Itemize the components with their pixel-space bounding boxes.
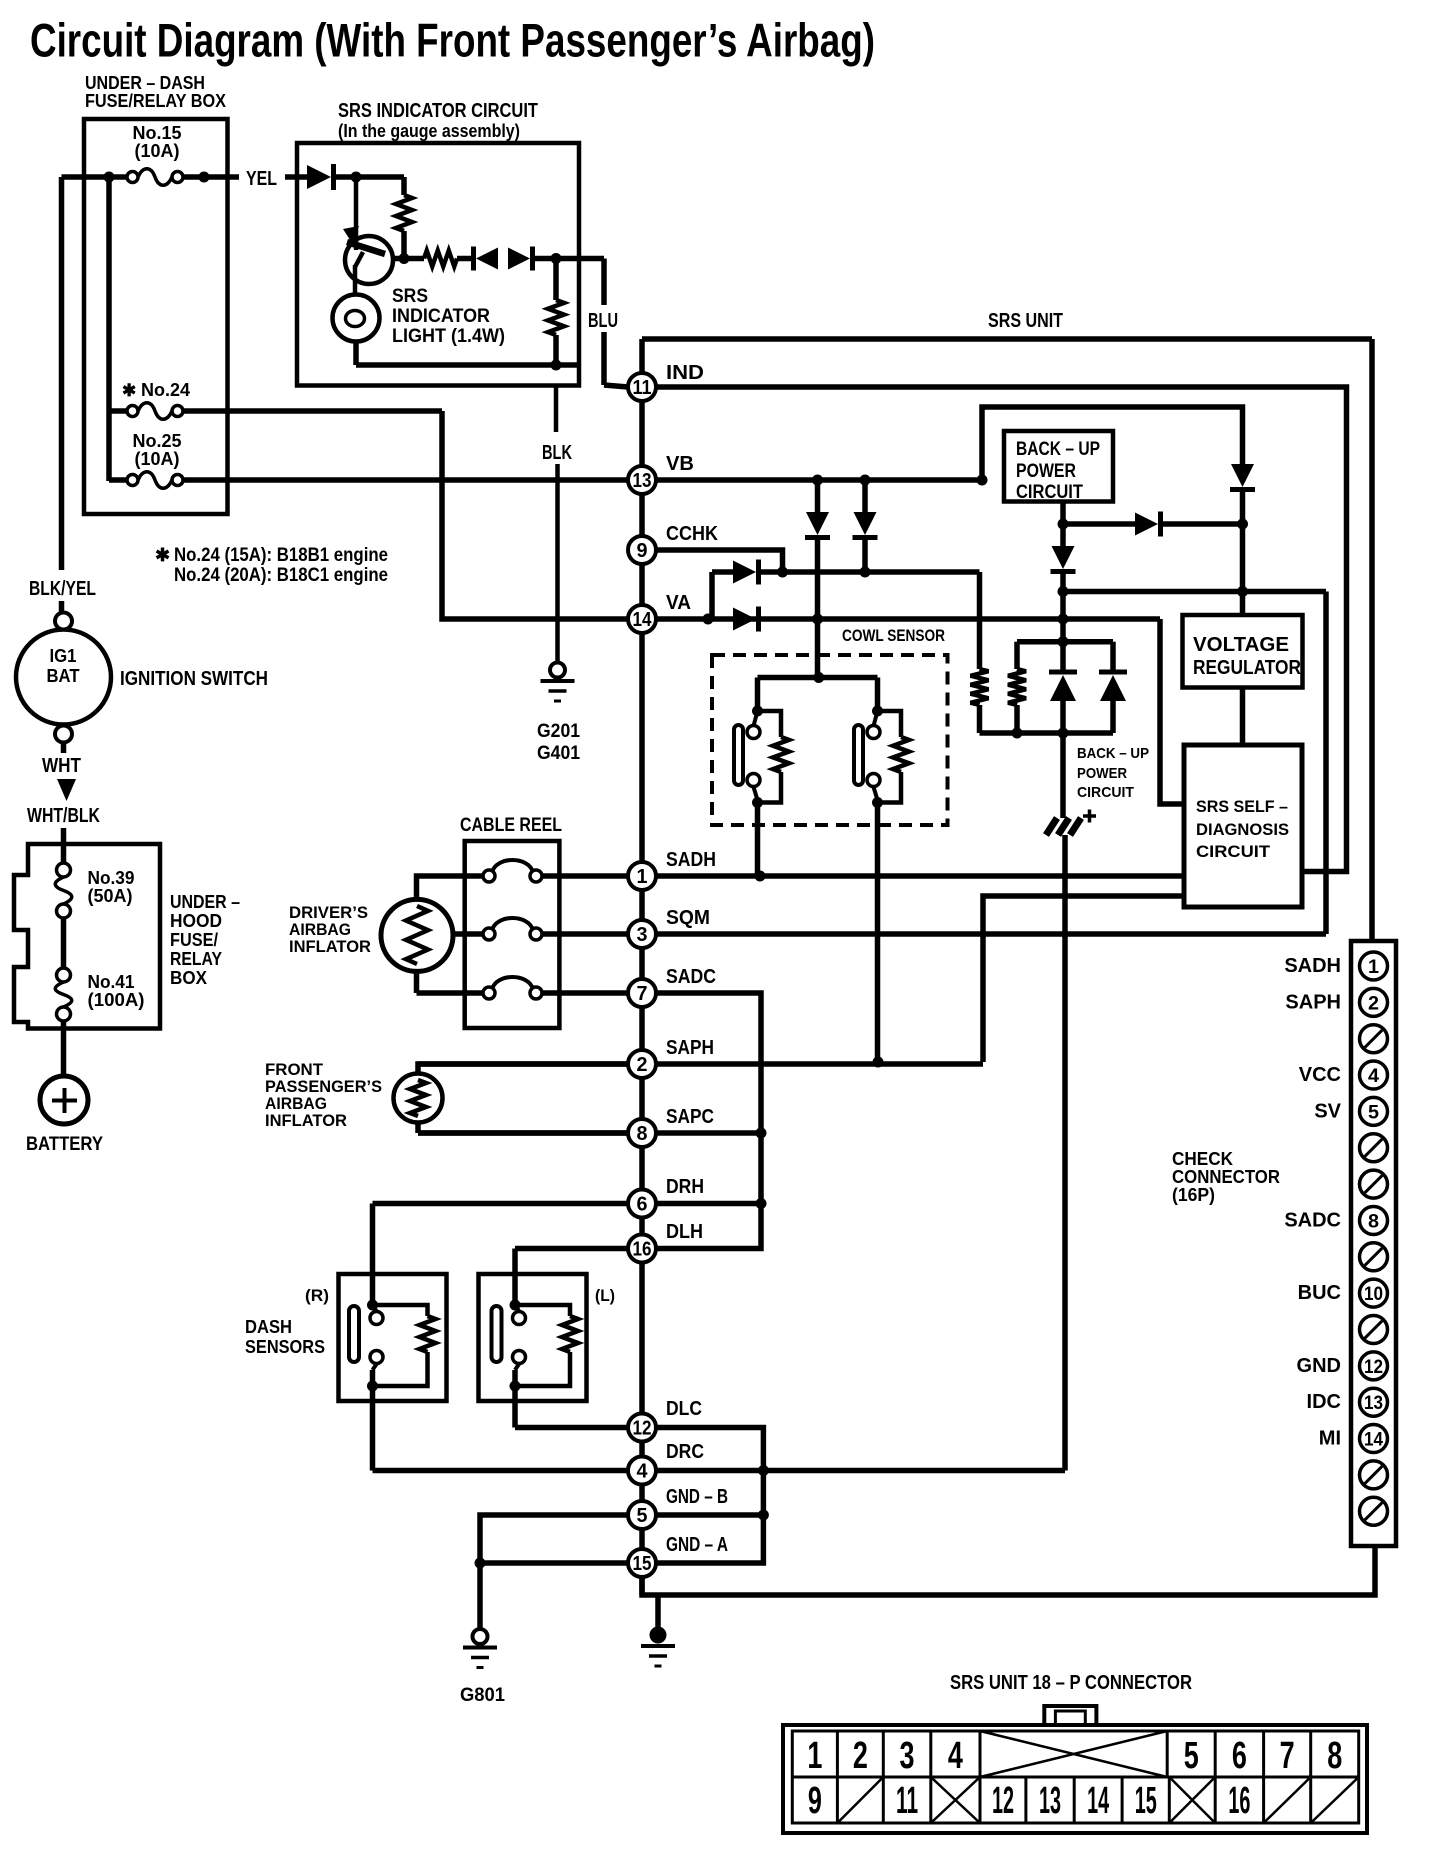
svg-text:13: 13 — [1364, 1393, 1383, 1414]
svg-text:No.24: No.24 — [141, 380, 190, 400]
svg-text:SV: SV — [1314, 1100, 1341, 1122]
svg-text:CIRCUIT: CIRCUIT — [1016, 482, 1083, 503]
svg-text:(50A): (50A) — [88, 886, 133, 906]
svg-text:8: 8 — [1368, 1211, 1379, 1232]
svg-text:CIRCUIT: CIRCUIT — [1196, 842, 1271, 861]
svg-text:3: 3 — [900, 1735, 915, 1777]
svg-text:5: 5 — [637, 1505, 648, 1527]
svg-text:UNDER – DASH: UNDER – DASH — [85, 73, 205, 93]
svg-text:WHT: WHT — [42, 755, 81, 777]
svg-text:7: 7 — [1280, 1735, 1295, 1777]
svg-text:8: 8 — [1327, 1735, 1342, 1777]
svg-text:(10A): (10A) — [135, 141, 180, 161]
svg-text:HOOD: HOOD — [170, 911, 222, 931]
svg-text:SADC: SADC — [666, 966, 716, 988]
svg-text:12: 12 — [992, 1780, 1014, 1822]
svg-text:4: 4 — [1368, 1066, 1379, 1087]
svg-text:BAT: BAT — [47, 666, 80, 686]
svg-text:CCHK: CCHK — [666, 523, 718, 545]
svg-text:IG1: IG1 — [50, 646, 77, 666]
svg-text:8: 8 — [637, 1123, 648, 1145]
svg-text:DIAGNOSIS: DIAGNOSIS — [1196, 820, 1289, 839]
svg-text:BLK: BLK — [542, 442, 572, 464]
svg-text:COWL SENSOR: COWL SENSOR — [842, 626, 945, 645]
svg-text:(L): (L) — [595, 1286, 615, 1305]
svg-text:14: 14 — [633, 609, 653, 631]
svg-text:3: 3 — [637, 924, 648, 946]
svg-text:13: 13 — [1039, 1780, 1061, 1822]
svg-text:MI: MI — [1319, 1428, 1341, 1450]
svg-text:BOX: BOX — [170, 968, 207, 988]
svg-text:GND – B: GND – B — [666, 1486, 728, 1508]
svg-text:DASH: DASH — [245, 1317, 292, 1337]
svg-text:No.25: No.25 — [133, 431, 182, 451]
svg-text:(R): (R) — [305, 1286, 329, 1305]
svg-text:SAPH: SAPH — [1285, 991, 1341, 1013]
svg-text:5: 5 — [1184, 1735, 1199, 1777]
svg-text:4: 4 — [637, 1461, 649, 1483]
svg-text:No.24 (20A): B18C1 engine: No.24 (20A): B18C1 engine — [174, 565, 388, 586]
svg-text:No.24 (15A): B18B1 engine: No.24 (15A): B18B1 engine — [174, 545, 388, 566]
svg-text:BLK/YEL: BLK/YEL — [29, 578, 96, 600]
svg-text:POWER: POWER — [1016, 461, 1076, 482]
svg-text:SADC: SADC — [1284, 1209, 1341, 1231]
svg-text:CIRCUIT: CIRCUIT — [1077, 784, 1134, 801]
svg-text:No.41: No.41 — [88, 972, 135, 992]
svg-text:INDICATOR: INDICATOR — [392, 306, 490, 327]
svg-text:GND – A: GND – A — [666, 1534, 728, 1556]
svg-text:9: 9 — [637, 540, 648, 562]
svg-text:G401: G401 — [537, 743, 580, 764]
svg-text:SRS UNIT: SRS UNIT — [988, 310, 1063, 332]
svg-text:DLH: DLH — [666, 1221, 703, 1243]
svg-text:VOLTAGE: VOLTAGE — [1193, 634, 1289, 656]
svg-text:IDC: IDC — [1307, 1391, 1341, 1413]
svg-text:SRS: SRS — [392, 286, 428, 307]
svg-text:12: 12 — [1364, 1357, 1383, 1378]
svg-text:BACK – UP: BACK – UP — [1077, 745, 1149, 762]
svg-text:CONNECTOR: CONNECTOR — [1172, 1167, 1280, 1187]
svg-text:SRS INDICATOR CIRCUIT: SRS INDICATOR CIRCUIT — [338, 100, 538, 122]
svg-text:14: 14 — [1087, 1780, 1109, 1822]
svg-text:10: 10 — [1364, 1284, 1383, 1305]
svg-text:DRC: DRC — [666, 1441, 704, 1463]
svg-text:9: 9 — [808, 1780, 822, 1822]
svg-text:RELAY: RELAY — [170, 949, 222, 969]
svg-text:6: 6 — [637, 1194, 648, 1216]
svg-text:FUSE/RELAY BOX: FUSE/RELAY BOX — [85, 91, 226, 111]
svg-text:13: 13 — [633, 470, 652, 492]
svg-text:BLU: BLU — [588, 310, 618, 332]
svg-text:1: 1 — [807, 1735, 822, 1777]
svg-text:LIGHT (1.4W): LIGHT (1.4W) — [392, 326, 505, 347]
svg-text:2: 2 — [1368, 993, 1379, 1014]
svg-text:VCC: VCC — [1299, 1064, 1341, 1086]
svg-text:DRH: DRH — [666, 1176, 704, 1198]
svg-text:VB: VB — [666, 453, 694, 475]
svg-text:15: 15 — [633, 1553, 652, 1575]
svg-text:G201: G201 — [537, 721, 580, 742]
svg-text:SQM: SQM — [666, 907, 710, 929]
svg-text:BACK – UP: BACK – UP — [1016, 439, 1100, 460]
svg-text:2: 2 — [637, 1054, 648, 1076]
svg-text:(16P): (16P) — [1172, 1185, 1215, 1205]
svg-text:16: 16 — [1228, 1780, 1250, 1822]
svg-text:DLC: DLC — [666, 1398, 702, 1420]
svg-text:FUSE/: FUSE/ — [170, 930, 218, 950]
svg-text:INFLATOR: INFLATOR — [265, 1111, 347, 1130]
svg-text:G801: G801 — [460, 1685, 505, 1706]
svg-text:SAPH: SAPH — [666, 1037, 714, 1059]
svg-text:No.15: No.15 — [133, 123, 182, 143]
svg-text:SRS SELF –: SRS SELF – — [1196, 797, 1288, 816]
svg-text:VA: VA — [666, 592, 691, 614]
svg-text:1: 1 — [1368, 957, 1379, 978]
svg-text:UNDER –: UNDER – — [170, 892, 240, 912]
svg-text:(10A): (10A) — [135, 449, 180, 469]
svg-text:12: 12 — [633, 1418, 652, 1440]
svg-text:5: 5 — [1368, 1102, 1379, 1123]
svg-text:15: 15 — [1135, 1780, 1157, 1822]
svg-text:(In the gauge assembly): (In the gauge assembly) — [338, 121, 520, 141]
svg-text:BATTERY: BATTERY — [26, 1134, 103, 1155]
svg-text:POWER: POWER — [1077, 765, 1127, 782]
svg-text:7: 7 — [637, 983, 648, 1005]
svg-text:REGULATOR: REGULATOR — [1193, 657, 1301, 679]
svg-text:INFLATOR: INFLATOR — [289, 937, 371, 956]
svg-text:SAPC: SAPC — [666, 1106, 714, 1128]
svg-text:WHT/BLK: WHT/BLK — [27, 805, 100, 827]
svg-text:Circuit Diagram (With Front Pa: Circuit Diagram (With Front Passenger’s … — [30, 14, 875, 67]
svg-text:CABLE REEL: CABLE REEL — [460, 815, 562, 836]
svg-text:(100A): (100A) — [88, 990, 145, 1010]
svg-text:CHECK: CHECK — [1172, 1149, 1233, 1169]
svg-text:GND: GND — [1297, 1355, 1341, 1377]
svg-text:16: 16 — [633, 1239, 652, 1261]
svg-text:SENSORS: SENSORS — [245, 1337, 325, 1357]
svg-text:1: 1 — [637, 866, 648, 888]
svg-text:2: 2 — [853, 1735, 868, 1777]
svg-text:IGNITION SWITCH: IGNITION SWITCH — [120, 668, 268, 690]
svg-text:BUC: BUC — [1298, 1282, 1341, 1304]
svg-text:11: 11 — [896, 1780, 918, 1822]
svg-text:✱: ✱ — [155, 545, 170, 565]
svg-text:6: 6 — [1232, 1735, 1247, 1777]
svg-text:14: 14 — [1364, 1430, 1383, 1451]
svg-text:SADH: SADH — [666, 849, 716, 871]
svg-text:IND: IND — [666, 362, 704, 384]
svg-text:✱: ✱ — [122, 381, 136, 400]
svg-text:SADH: SADH — [1284, 955, 1341, 977]
svg-text:SRS UNIT 18 – P CONNECTOR: SRS UNIT 18 – P CONNECTOR — [950, 1672, 1192, 1694]
svg-text:11: 11 — [633, 377, 652, 399]
svg-text:4: 4 — [948, 1735, 963, 1777]
svg-text:YEL: YEL — [246, 168, 277, 190]
svg-text:No.39: No.39 — [88, 868, 135, 888]
